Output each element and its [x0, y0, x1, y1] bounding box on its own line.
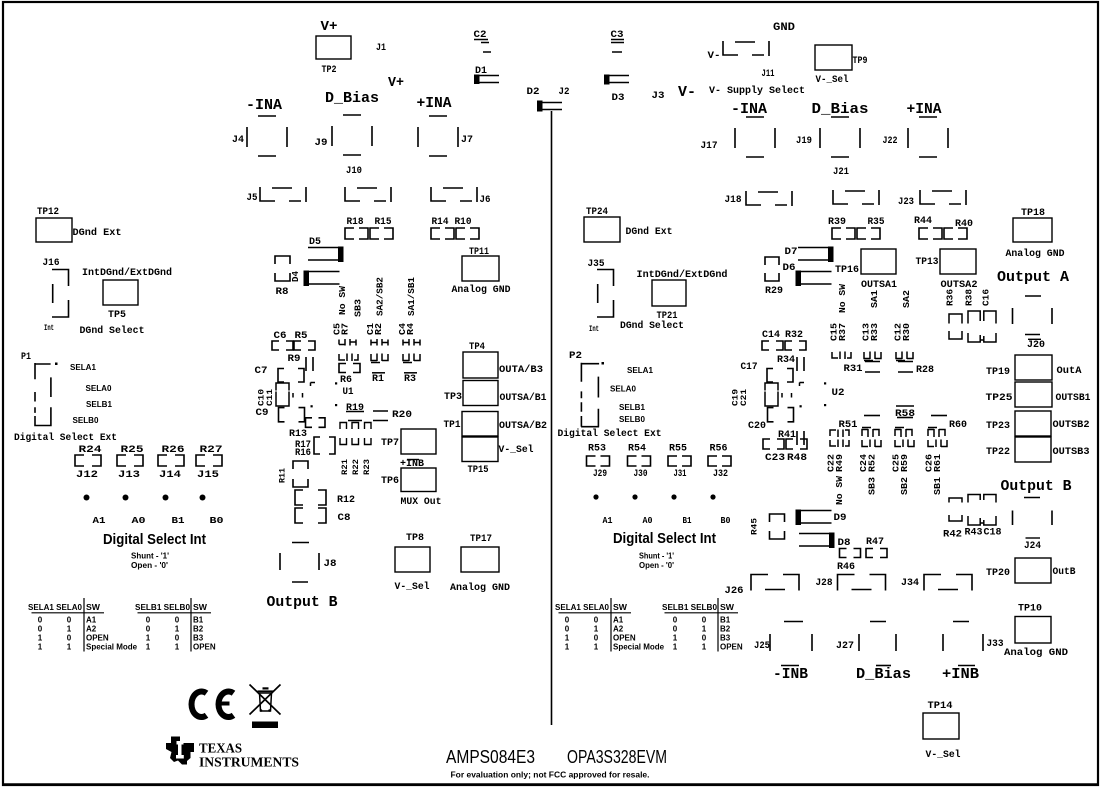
capacitor C4 pads — [403, 339, 420, 346]
svg-text:TP1: TP1 — [444, 420, 461, 431]
svg-text:J31: J31 — [674, 468, 687, 480]
note Shunt (left) — [131, 552, 169, 561]
svg-text:R2: R2 — [373, 323, 384, 335]
capacitor C7 — [278, 369, 304, 383]
switch SB3 pads — [339, 354, 358, 362]
net A1 label (right) — [603, 515, 613, 526]
table B hline (right) — [665, 612, 739, 614]
svg-text:Digital Select Ext: Digital Select Ext — [558, 428, 662, 440]
net DGnd Ext label (left) — [73, 227, 122, 239]
svg-text:D_Bias: D_Bias — [812, 101, 869, 118]
capacitor C5 pads — [339, 339, 356, 346]
svg-text:B3: B3 — [193, 634, 204, 643]
testpoint TP13 left label — [916, 257, 939, 268]
testpoint TP9 — [815, 45, 852, 70]
svg-text:Output B: Output B — [267, 594, 338, 611]
svg-text:B3: B3 — [720, 634, 731, 643]
net B0 label (right) — [721, 515, 731, 526]
diode D8 label — [838, 538, 851, 549]
testpoint TP19 — [1015, 355, 1052, 380]
node D_Bias label (left) — [325, 90, 379, 107]
resistor R40 label — [955, 219, 973, 230]
resistor R5 — [294, 341, 315, 350]
svg-text:B2: B2 — [193, 624, 204, 633]
svg-text:SELB1: SELB1 — [86, 400, 113, 409]
capacitor C23 label — [765, 453, 785, 464]
svg-text:SA1: SA1 — [869, 290, 880, 308]
diode D9 — [796, 510, 832, 526]
jumper J5 — [260, 187, 306, 202]
svg-text:J8: J8 — [324, 559, 337, 570]
resistor R8 label — [276, 287, 289, 298]
logo INSTRUMENTS text — [199, 756, 299, 771]
svg-text:0: 0 — [175, 634, 180, 643]
net SB2 label (U2) — [899, 477, 910, 495]
resistor R30 label (rotated) — [901, 323, 912, 341]
diode D6 label — [783, 263, 796, 274]
svg-text:1: 1 — [594, 643, 599, 652]
svg-text:J15: J15 — [197, 469, 219, 481]
svg-text:OUTA/B3: OUTA/B3 — [499, 364, 543, 376]
svg-text:P1: P1 — [21, 352, 31, 363]
resistor R18 — [345, 228, 368, 239]
jumper J31 label — [674, 468, 687, 480]
testpoint TP21 — [652, 280, 686, 306]
resistor R10 — [456, 228, 479, 239]
net Int label (left) — [44, 323, 54, 333]
resistor R13 label — [289, 429, 307, 440]
jumper J17 label — [701, 141, 718, 152]
svg-text:TP6: TP6 — [381, 476, 399, 487]
testpoint TP11 — [462, 256, 499, 281]
svg-text:TP23: TP23 — [986, 421, 1010, 432]
svg-text:D_Bias: D_Bias — [325, 90, 379, 107]
svg-text:TP12: TP12 — [37, 207, 59, 218]
svg-text:TP10: TP10 — [1018, 604, 1042, 615]
wire center divider — [551, 111, 553, 725]
net SB1 label (U2) — [932, 477, 943, 495]
svg-text:Analog GND: Analog GND — [1004, 647, 1068, 659]
diode D5 label — [309, 237, 321, 248]
jumper J30 label — [634, 468, 648, 480]
jumper J19 label — [796, 136, 812, 147]
mux pads above TP7 — [340, 421, 371, 430]
svg-text:SW: SW — [193, 603, 207, 612]
capacitor C6 — [272, 341, 293, 350]
capacitor C2 label — [474, 30, 487, 41]
diode D8 — [799, 533, 835, 549]
testpoint TP2 — [316, 36, 351, 59]
svg-text:1: 1 — [146, 643, 151, 652]
svg-text:1: 1 — [702, 643, 707, 652]
resistor R58 label (overlined) — [895, 406, 915, 420]
testpoint TP20 label — [986, 568, 1010, 579]
jumper J24 label (overlined) — [1024, 538, 1041, 552]
mux group3 pads (right low) — [895, 428, 912, 438]
resistor R39 — [832, 228, 855, 239]
mux pads above TP7 row2 — [340, 438, 371, 445]
testpoint TP18 label — [1021, 208, 1045, 219]
diode D4 — [304, 271, 340, 287]
resistor R14 — [431, 228, 454, 239]
node A1 dot (left) — [84, 495, 90, 501]
node V- label (big) — [678, 84, 696, 101]
capacitor C3 label — [611, 30, 624, 41]
diode D4 label (rotated) — [291, 270, 301, 282]
resistor R25 label — [121, 444, 144, 456]
testpoint TP22 label — [986, 447, 1010, 458]
svg-text:A0: A0 — [643, 515, 653, 526]
net SA2/SB2 label (U1) — [375, 277, 386, 316]
table A header (right) — [555, 603, 627, 612]
svg-text:TP14: TP14 — [928, 701, 953, 712]
testpoint TP7 — [401, 429, 436, 454]
testpoint TP6 label — [381, 476, 399, 487]
resistor R11 pads — [293, 461, 308, 487]
resistor R44 label — [914, 216, 932, 227]
capacitor C14 — [762, 341, 783, 350]
svg-text:B0: B0 — [210, 515, 224, 526]
svg-text:R22: R22 — [351, 459, 361, 475]
capacitor C1 pads — [371, 339, 388, 346]
svg-text:V-_Sel: V-_Sel — [926, 749, 961, 761]
svg-text:R42: R42 — [943, 530, 962, 541]
net IntDGnd/ExtDGnd label (left) — [82, 267, 172, 279]
svg-text:J19: J19 — [796, 136, 812, 147]
svg-text:R6: R6 — [340, 375, 352, 386]
resistor R42 label — [943, 530, 962, 541]
text FCC notice — [451, 770, 650, 780]
node -INA label (left) — [246, 97, 282, 114]
svg-text:R10: R10 — [455, 217, 472, 228]
svg-text:TP15: TP15 — [468, 465, 489, 476]
svg-text:SA2/SB2: SA2/SB2 — [375, 277, 386, 316]
jumper J28 label — [816, 578, 833, 589]
svg-text:R59: R59 — [899, 454, 910, 472]
testpoint TP11 label — [469, 247, 489, 258]
svg-text:R55: R55 — [669, 443, 687, 455]
net V-_Sel label (TP14) — [926, 749, 961, 761]
svg-text:SELA0: SELA0 — [86, 384, 113, 393]
connector P2 label — [569, 351, 582, 362]
resistor R55 label — [669, 443, 687, 455]
resistor R23 label (rotated) — [362, 459, 372, 475]
svg-text:+INA: +INA — [417, 95, 452, 112]
svg-text:R12: R12 — [337, 495, 355, 506]
svg-text:V+: V+ — [388, 75, 404, 91]
capacitor C20 label — [748, 421, 766, 432]
jumper J12 label — [76, 469, 98, 481]
svg-text:J2: J2 — [559, 87, 570, 98]
net A0 label (left) — [132, 515, 146, 526]
svg-text:R31: R31 — [844, 364, 863, 375]
capacitor C12 label (rotated) — [893, 323, 904, 341]
svg-text:J11: J11 — [762, 69, 775, 80]
svg-text:TP20: TP20 — [986, 568, 1010, 579]
net V-_Sel label (TP8) — [395, 581, 430, 593]
jumper J7 label — [461, 135, 473, 146]
net Analog GND label (TP11) — [452, 284, 511, 296]
resistor R55 — [668, 456, 691, 466]
svg-text:R43: R43 — [965, 528, 983, 539]
resistor R51 label — [839, 420, 858, 431]
node B0 dot (right) — [710, 494, 715, 499]
resistor R6 label — [340, 375, 352, 386]
svg-text:IntDGnd/ExtDGnd: IntDGnd/ExtDGnd — [637, 269, 728, 281]
svg-text:J23: J23 — [898, 197, 914, 208]
svg-text:SA2: SA2 — [901, 290, 912, 308]
net SA1 label (U2) — [869, 290, 880, 308]
svg-text:SW: SW — [86, 603, 100, 612]
jumper J4 (-INA) — [247, 116, 287, 156]
jumper J13 label — [118, 469, 140, 481]
jumper J11 — [723, 41, 769, 56]
svg-text:TP9: TP9 — [853, 56, 868, 67]
testpoint TP1 — [462, 412, 498, 437]
testpoint TP16 — [861, 249, 896, 274]
svg-text:OUTSB1: OUTSB1 — [1056, 393, 1091, 404]
testpoint TP2 label — [322, 65, 337, 76]
svg-text:C21: C21 — [739, 389, 749, 406]
svg-text:Shunt - '1': Shunt - '1' — [131, 552, 169, 561]
jumper J34 label — [901, 578, 919, 589]
jumper J4 label — [232, 135, 244, 146]
svg-text:J21: J21 — [833, 167, 849, 178]
svg-text:C18: C18 — [984, 528, 1002, 539]
svg-text:D3: D3 — [612, 93, 625, 104]
svg-text:Open - '0': Open - '0' — [639, 561, 674, 570]
svg-text:OUTSB2: OUTSB2 — [1053, 420, 1090, 431]
jumper J27 label — [836, 641, 854, 652]
svg-text:R20: R20 — [392, 410, 412, 421]
table A vline (left) — [83, 598, 85, 652]
resistor R4 label (rotated) — [405, 323, 416, 335]
jumper J22 (+INA) — [908, 117, 948, 157]
net V-_Sel label (TP15) — [499, 444, 534, 456]
svg-text:J28: J28 — [816, 578, 833, 589]
resistor R27 — [196, 455, 222, 466]
jumper J35 — [597, 270, 614, 318]
node +INB label (bottom) — [942, 666, 979, 684]
svg-text:J16: J16 — [43, 258, 60, 269]
net SELB0 label (left) — [73, 416, 100, 425]
resistor R34 label — [777, 355, 795, 366]
svg-text:0: 0 — [565, 624, 570, 633]
node +INA label (right) — [907, 101, 942, 118]
testpoint TP3 label — [444, 392, 462, 403]
svg-text:R39: R39 — [828, 217, 846, 228]
jumper J10 label — [346, 166, 362, 177]
svg-text:1: 1 — [673, 643, 678, 652]
svg-text:0: 0 — [38, 616, 43, 625]
resistor R44 — [919, 228, 942, 239]
svg-text:SW: SW — [613, 603, 627, 612]
resistor R5 label — [295, 331, 308, 342]
svg-text:SB3: SB3 — [867, 477, 878, 495]
node +INA label (left) — [417, 95, 452, 112]
testpoint TP19 label — [986, 367, 1010, 378]
svg-text:0: 0 — [594, 634, 599, 643]
svg-text:1: 1 — [565, 643, 570, 652]
resistor R53 label — [588, 443, 606, 455]
note Shunt (right) — [639, 552, 674, 561]
node B1 dot (left) — [163, 495, 169, 501]
node -INA label (right) — [731, 101, 767, 118]
svg-text:GND: GND — [773, 22, 795, 34]
testpoint TP6 — [401, 468, 436, 492]
svg-text:R9: R9 — [288, 354, 301, 365]
svg-text:SB2: SB2 — [899, 477, 910, 495]
svg-text:J26: J26 — [725, 586, 744, 597]
resistor R59 label (rotated) — [899, 454, 910, 472]
capacitor C26 label (rotated) — [924, 454, 935, 472]
svg-text:R45: R45 — [750, 518, 760, 535]
svg-text:0: 0 — [702, 634, 707, 643]
jumper J16 — [52, 270, 69, 318]
note Open (right) — [639, 561, 674, 570]
net No SW label (U2 up) — [837, 284, 848, 313]
op-amp U2 outline — [765, 382, 826, 407]
svg-text:B2: B2 — [720, 624, 731, 633]
mux group4 pads (right low) — [928, 428, 945, 438]
jumper J33 label — [987, 639, 1004, 650]
capacitor C20 pads — [768, 408, 794, 422]
jumper J33 (+INB) — [943, 622, 983, 652]
svg-text:OPA3S328EVM: OPA3S328EVM — [567, 747, 667, 767]
resistor R38/C16 pads — [968, 311, 996, 342]
resistor R54 — [628, 456, 651, 466]
logo CE — [192, 692, 234, 718]
svg-text:J27: J27 — [836, 641, 854, 652]
jumper J16 label — [43, 258, 60, 269]
testpoint TP17 label — [470, 534, 492, 545]
net OUTSB2 label — [1053, 420, 1090, 431]
svg-text:AMPS084E3: AMPS084E3 — [446, 747, 535, 767]
svg-text:A2: A2 — [86, 624, 97, 633]
svg-text:J17: J17 — [701, 141, 718, 152]
svg-text:OUTSA/B1: OUTSA/B1 — [500, 392, 547, 404]
diode D1 — [474, 75, 499, 85]
svg-text:J1: J1 — [376, 43, 386, 54]
resistor R26 — [158, 455, 184, 466]
jumper J8 label — [324, 559, 337, 570]
svg-text:D9: D9 — [834, 513, 847, 524]
svg-text:-INB: -INB — [773, 666, 808, 683]
net OUTA/B3 label — [499, 364, 543, 376]
svg-text:J34: J34 — [901, 578, 919, 589]
svg-text:J10: J10 — [346, 166, 362, 177]
table B header (right) — [662, 603, 734, 612]
svg-text:0: 0 — [146, 624, 151, 633]
svg-text:R49: R49 — [834, 454, 845, 472]
jumper J34 — [924, 575, 972, 591]
testpoint TP9 label — [853, 56, 868, 67]
capacitor C8 pads — [295, 508, 326, 523]
svg-text:SELA1 SELA0: SELA1 SELA0 — [555, 603, 610, 612]
svg-text:J4: J4 — [232, 135, 244, 146]
table A hline (left) — [32, 612, 105, 614]
resistor R31 label — [844, 364, 863, 375]
resistor R12 label — [337, 495, 355, 506]
testpoint TP1 label — [444, 420, 461, 431]
jumper J22 label — [883, 136, 898, 147]
svg-text:OPEN: OPEN — [193, 643, 216, 652]
jumper J9 (D_Bias) — [332, 115, 372, 155]
svg-text:R4: R4 — [405, 323, 416, 335]
svg-text:J14: J14 — [159, 469, 181, 481]
svg-text:Digital Select Int: Digital Select Int — [613, 531, 716, 547]
svg-text:J7: J7 — [461, 135, 473, 146]
resistor R15 — [370, 228, 393, 239]
capacitor C8 label — [338, 513, 351, 524]
net Analog GND label (TP18) — [1006, 248, 1065, 260]
resistor R25 — [117, 455, 143, 466]
svg-text:J35: J35 — [588, 259, 605, 270]
resistor R47 label — [866, 537, 884, 548]
table A hline (right) — [559, 612, 632, 614]
capacitor C11 pads — [306, 418, 326, 428]
svg-text:MUX Out: MUX Out — [401, 496, 442, 508]
node D_Bias label (right) — [812, 101, 869, 118]
capacitor C7 label — [255, 366, 268, 377]
capacitor C24 label (rotated) — [858, 454, 869, 472]
node V- label (small) — [708, 51, 721, 62]
svg-text:SELB1: SELB1 — [619, 403, 646, 412]
resistor R1 label (overlined) — [372, 373, 385, 385]
net MUX Out label — [401, 496, 442, 508]
testpoint TP8 — [395, 547, 430, 572]
jumper J26 label — [725, 586, 744, 597]
svg-text:A0: A0 — [132, 515, 146, 526]
svg-text:R7: R7 — [340, 323, 351, 335]
resistor R28 pads — [898, 362, 913, 373]
testpoint TP18 — [1013, 218, 1052, 242]
net Digital Select Int label (left) — [103, 532, 206, 548]
testpoint TP20 — [1015, 558, 1051, 583]
jumper J15 label — [197, 469, 219, 481]
svg-text:C23: C23 — [765, 453, 785, 464]
mux group2 pads (right low) — [862, 428, 879, 438]
svg-text:J3: J3 — [652, 91, 665, 102]
svg-text:B0: B0 — [721, 515, 731, 526]
capacitor C23 pads — [763, 439, 784, 449]
table B rows (right) — [673, 616, 743, 652]
jumper J7 (+INA) — [418, 116, 458, 156]
node Output B label (right) — [1001, 478, 1072, 495]
svg-text:R53: R53 — [588, 443, 606, 455]
diode D5 — [308, 247, 344, 263]
svg-text:INSTRUMENTS: INSTRUMENTS — [199, 756, 299, 771]
svg-text:OPEN: OPEN — [86, 634, 109, 643]
svg-text:R44: R44 — [914, 216, 932, 227]
row2 pads g4 (right low) — [928, 440, 947, 448]
svg-text:SB1: SB1 — [932, 477, 943, 495]
svg-text:+INB: +INB — [942, 666, 979, 683]
svg-text:R54: R54 — [628, 443, 646, 455]
jumper J8 — [280, 543, 319, 583]
testpoint TP3 — [463, 381, 498, 406]
resistor R42 pads — [949, 498, 962, 521]
testpoint TP25 label — [986, 393, 1013, 404]
resistor R36 label (rotated) — [946, 289, 956, 306]
svg-text:TEXAS: TEXAS — [199, 742, 242, 757]
jumper J19 (D_Bias) — [820, 117, 860, 157]
svg-text:R18: R18 — [347, 217, 364, 228]
capacitor C25 label (rotated) — [891, 454, 902, 472]
resistor R20 label — [392, 410, 412, 421]
svg-text:R29: R29 — [765, 286, 783, 297]
resistor R37 label (rotated) — [837, 323, 848, 341]
